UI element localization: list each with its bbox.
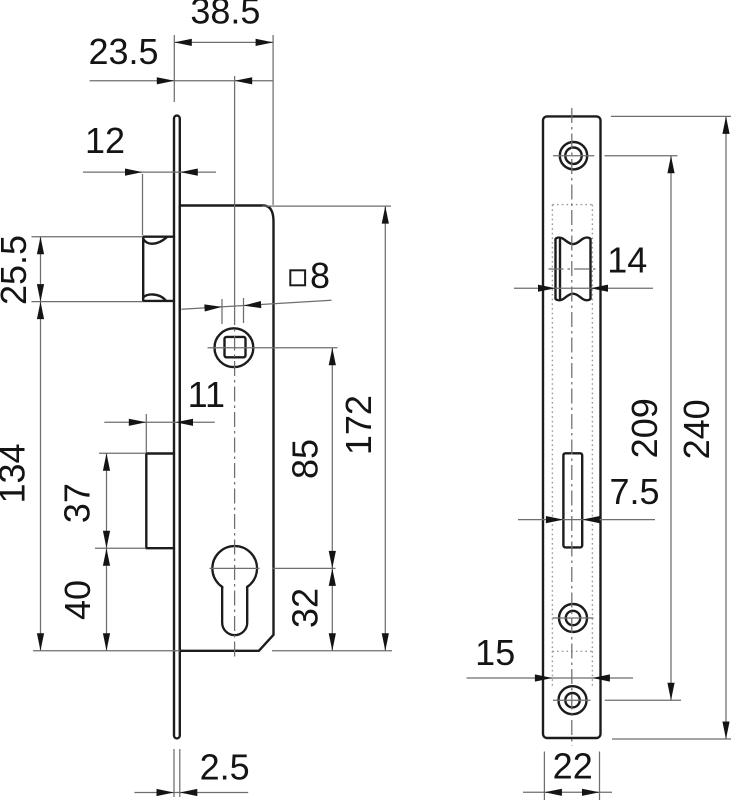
hidden lock case (dotted) [552, 204, 592, 206]
svg-text:8: 8 [310, 255, 330, 296]
dim 23.5 [88, 31, 273, 85]
dim 15 (hidden case width) [467, 632, 633, 682]
top screw hole [553, 142, 594, 169]
svg-text:14: 14 [607, 240, 647, 281]
horizontal centerline through cylinder [210, 567, 336, 569]
dim 32 (cylinder to case bottom) [284, 568, 336, 650]
dim 37 (box height) [56, 453, 146, 548]
svg-text:23.5: 23.5 [88, 31, 158, 72]
latch bolt (side view) [143, 237, 174, 301]
dim 2.5 (faceplate thickness) [134, 747, 249, 797]
dim 22 (plate width) [523, 745, 612, 800]
dim 12 (latch protrusion) [83, 120, 216, 235]
dim 209 (hole to hole) [605, 156, 682, 701]
svg-text:7.5: 7.5 [609, 471, 659, 512]
dim 40 [57, 548, 110, 651]
svg-text:240: 240 [676, 399, 717, 459]
horizontal centerline through follower [208, 347, 338, 349]
dim 240 (plate height) [611, 116, 731, 739]
roller latch (front view) [549, 238, 597, 301]
dim 134 [0, 302, 44, 651]
svg-text:25.5: 25.5 [0, 235, 34, 305]
case bottom extension line [33, 650, 392, 652]
dim square 8 leader [182, 255, 332, 324]
svg-text:22: 22 [553, 745, 593, 786]
dim 7.5 (slot width) [518, 471, 660, 523]
svg-text:12: 12 [85, 120, 125, 161]
euro profile cylinder hole [212, 546, 257, 635]
square follower 8mm square [225, 337, 246, 357]
svg-text:209: 209 [624, 398, 665, 458]
svg-text:38.5: 38.5 [190, 0, 260, 32]
dim 11 (box protrusion) [104, 374, 225, 452]
dim 85 (follower to cylinder) [284, 348, 336, 569]
vertical centerline right view [571, 108, 573, 746]
svg-text:40: 40 [57, 580, 98, 620]
square follower circle [215, 328, 254, 367]
faceplate front outline [543, 116, 601, 738]
vertical centerline through follower and cylinder [234, 76, 236, 310]
dim 38.5 [174, 0, 273, 205]
faceplate strip (side) [174, 116, 180, 739]
middle screw hole [553, 604, 594, 632]
lower connection box (37 box) [146, 454, 174, 549]
slot 7.5 x 37 [563, 453, 582, 547]
svg-text:37: 37 [56, 483, 97, 523]
dim 25.5 (latch height) [0, 235, 143, 305]
svg-text:85: 85 [284, 439, 325, 479]
lock case body [180, 206, 274, 651]
dim 14 (roller width) [514, 240, 653, 292]
svg-text:15: 15 [475, 632, 515, 673]
bottom screw hole [553, 686, 591, 714]
svg-text:2.5: 2.5 [200, 747, 250, 788]
dim 172 (case height) [262, 206, 391, 651]
svg-text:134: 134 [0, 443, 32, 503]
svg-text:11: 11 [188, 374, 225, 415]
svg-text:32: 32 [284, 588, 325, 628]
svg-text:172: 172 [338, 395, 379, 455]
